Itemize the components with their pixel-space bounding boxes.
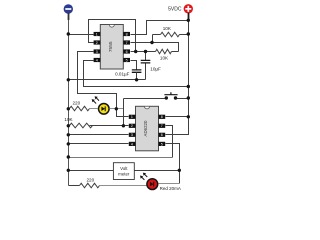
positive supply terminal 5VDC (red plus): [184, 4, 193, 13]
resistor R4 10K (AD620 input): [64, 117, 92, 128]
op-amp U2 AD620 instrumentation amplifier: [129, 106, 165, 151]
resistor R5 220 (LED2 series): [69, 178, 100, 188]
svg-text:4: 4: [131, 142, 133, 146]
wire LED1 right: [110, 108, 124, 110]
node rail5v-U2pin8: [187, 115, 190, 118]
svg-text:7: 7: [161, 124, 163, 128]
capacitor C2 10uF: [141, 52, 161, 80]
wire riser switch net to U2 pin2: [123, 99, 125, 126]
svg-text:10K: 10K: [163, 26, 172, 31]
svg-text:7555: 7555: [108, 41, 114, 52]
wire U1 pin3 output down to LED node and U2 pin1: [78, 52, 129, 117]
wire R4 to U2 pin2: [90, 125, 129, 127]
node rail-grayrow: [67, 155, 70, 158]
resistor R2 10K (middle): [156, 49, 179, 60]
node rail-pin4row: [67, 142, 70, 145]
wire U2 pin4 row: [69, 143, 129, 145]
svg-text:8: 8: [126, 32, 128, 36]
svg-text:10µF: 10µF: [150, 66, 161, 71]
node rail-R4: [67, 124, 70, 127]
wire ground row caps: [69, 79, 146, 81]
node pin6-tie: [134, 50, 137, 53]
wire rail to meter: [69, 170, 114, 172]
node U2pin2: [122, 124, 125, 127]
negative supply terminal (blue minus): [64, 4, 73, 13]
wire U1 pin4 long row to 5VDC rail: [84, 61, 189, 87]
svg-text:220: 220: [72, 101, 80, 106]
node sw-right: [174, 96, 177, 99]
op IC U1 7555 timer: [94, 25, 130, 70]
wire switch row: [124, 98, 167, 100]
svg-text:10K: 10K: [160, 56, 169, 61]
resistor R1 10K (top): [153, 26, 189, 43]
svg-text:5VDC: 5VDC: [168, 7, 182, 13]
LED D2 red emitter arrows: [144, 174, 147, 177]
wire U1 pin6 row: [131, 51, 156, 53]
svg-text:4: 4: [96, 58, 98, 62]
svg-text:1: 1: [131, 115, 133, 119]
svg-text:5: 5: [161, 142, 163, 146]
node pin7-R1: [150, 41, 153, 44]
node rail5v-R1: [187, 32, 190, 35]
svg-text:2: 2: [131, 124, 133, 128]
svg-text:0.01µF: 0.01µF: [115, 72, 130, 77]
wire row to U2 pin7 (gray): [69, 157, 173, 159]
svg-text:6: 6: [126, 50, 128, 54]
node rail-capgnd: [67, 78, 70, 81]
node pin6-C2: [144, 50, 147, 53]
node C1-gnd: [135, 78, 138, 81]
svg-text:3: 3: [131, 133, 133, 137]
svg-text:5: 5: [126, 58, 128, 62]
svg-text:6: 6: [161, 133, 163, 137]
node rail-pin3row: [67, 133, 70, 136]
node sw-left: [165, 96, 168, 99]
wire U2 pin8 to rail: [166, 116, 189, 118]
wire U1 pin7 row: [131, 43, 179, 52]
capacitor C1 0.01uF: [115, 70, 141, 80]
volt meter M1: [113, 163, 134, 180]
svg-text:AD6220: AD6220: [143, 120, 148, 136]
LED D2 red: [147, 179, 158, 190]
node rail-R3: [67, 107, 70, 110]
node rail5v-pin4row: [187, 85, 190, 88]
svg-text:1: 1: [96, 32, 98, 36]
node rail5v-pin8: [187, 19, 190, 22]
svg-text:Red 20mA: Red 20mA: [160, 186, 181, 191]
svg-text:meter: meter: [118, 171, 130, 176]
wire: [68, 14, 70, 186]
svg-text:10K: 10K: [64, 117, 73, 122]
wire U2 pin7 to gray row: [166, 126, 173, 158]
wire R5 to LED2: [100, 185, 147, 187]
pushbutton switch S1: [164, 92, 177, 94]
wire U2 pin3 row: [69, 134, 129, 136]
wire U1 pin5 to cap C1: [131, 61, 137, 70]
wire U2 pin5 to LED2: [166, 144, 180, 184]
node rail-meter: [67, 169, 70, 172]
wire U1 pin8 to 5VDC rail: [131, 21, 189, 35]
wire U1 pin2 tied to pin6 node: [89, 20, 136, 52]
wire U1 pin1 to left rail: [69, 34, 94, 36]
svg-text:Volt: Volt: [120, 166, 128, 171]
node LED1-right: [115, 107, 118, 110]
svg-text:8: 8: [161, 115, 163, 119]
svg-text:7: 7: [126, 41, 128, 45]
wire meter to LED2 node: [135, 170, 180, 172]
node rail-pin1: [67, 32, 70, 35]
node LED2-meter: [178, 169, 181, 172]
wire R3 to LED1: [90, 108, 98, 110]
svg-text:2: 2: [96, 41, 98, 45]
LED D1 yellow emitter arrows: [96, 97, 99, 100]
LED D1 yellow: [99, 104, 110, 115]
svg-text:220: 220: [86, 178, 94, 183]
node rail5v-sw: [187, 96, 190, 99]
resistor R3 220 (LED1 series): [70, 101, 90, 111]
wire 5VDC rail: [166, 14, 189, 135]
svg-text:3: 3: [96, 50, 98, 54]
